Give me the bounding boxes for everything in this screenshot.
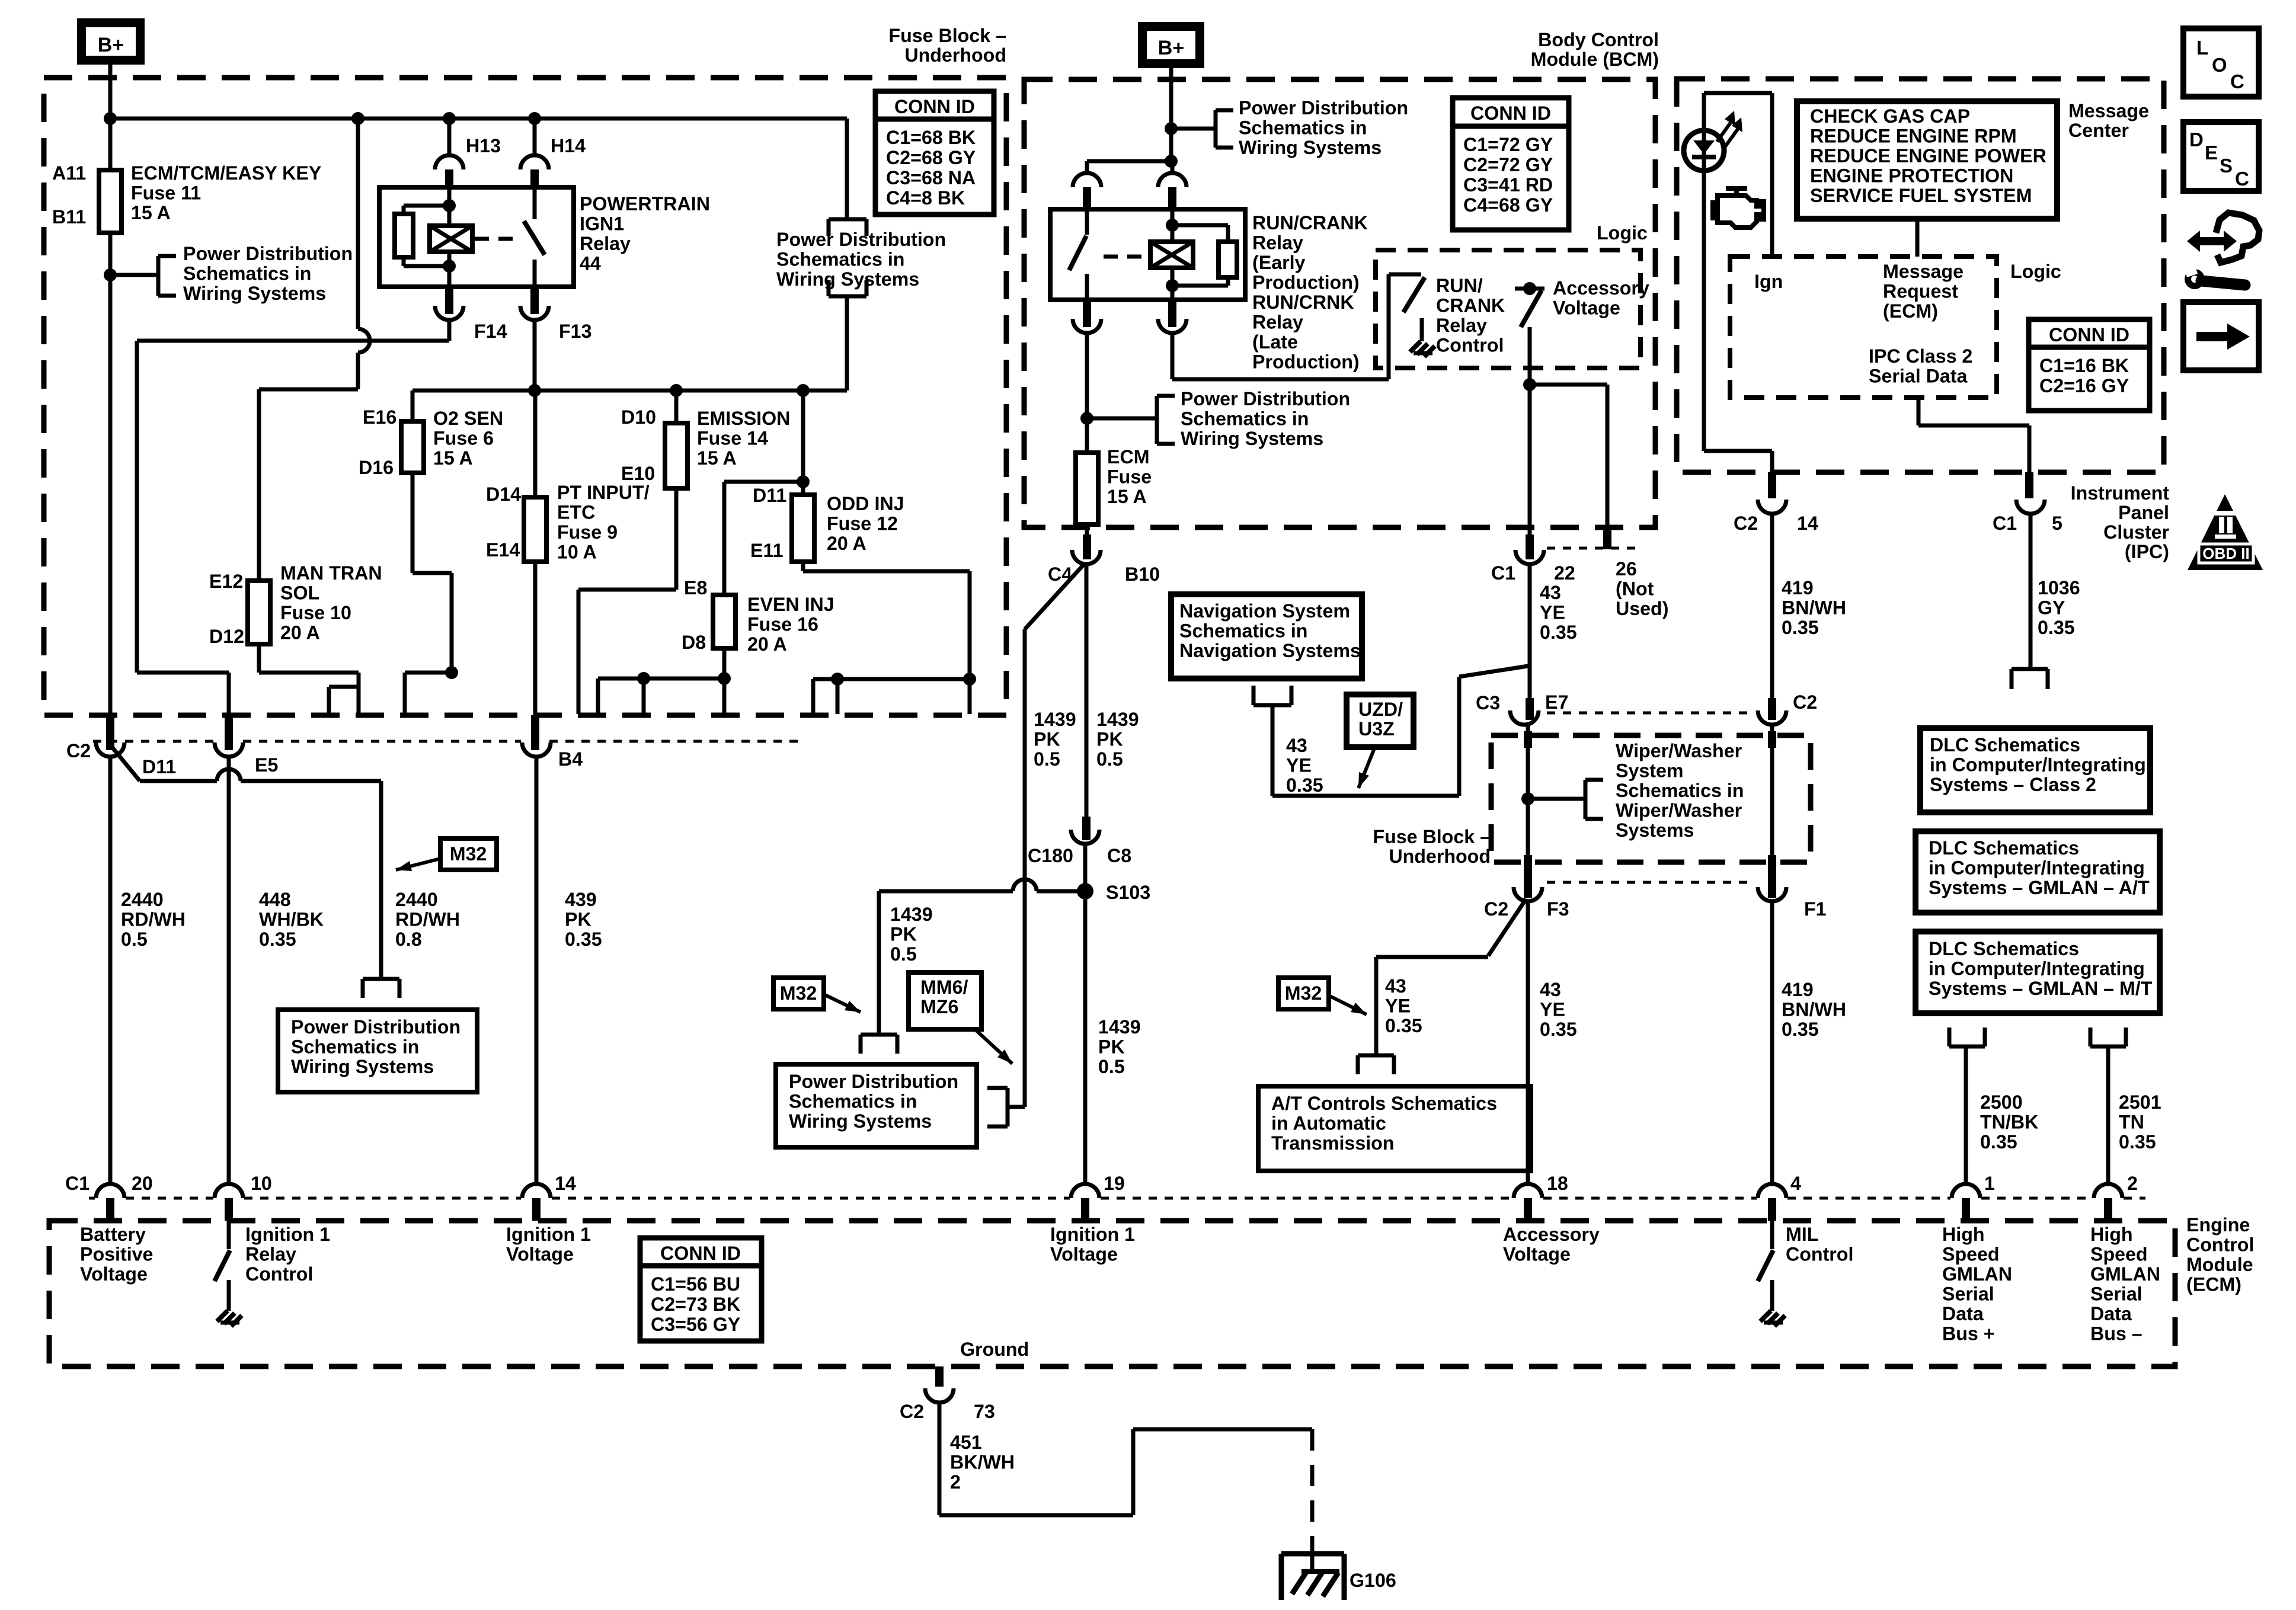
junction dot bus at H13 bbox=[443, 112, 456, 125]
svg-text:ETC: ETC bbox=[557, 502, 595, 523]
svg-text:M32: M32 bbox=[450, 843, 487, 865]
wire x604 upper bbox=[356, 119, 360, 329]
svg-text:Wiring Systems: Wiring Systems bbox=[1239, 137, 1382, 158]
connector ECM pin 19 arc bbox=[1071, 1184, 1099, 1198]
svg-text:1439: 1439 bbox=[890, 904, 933, 925]
wire x604 to MAN TRAN bbox=[259, 388, 358, 392]
junction dot O2 bottom bbox=[445, 666, 458, 679]
svg-text:Systems: Systems bbox=[1616, 820, 1694, 841]
wire relay out right down bbox=[1171, 333, 1175, 379]
svg-text:E12: E12 bbox=[209, 571, 243, 592]
svg-text:Wiring Systems: Wiring Systems bbox=[1181, 428, 1323, 449]
svg-text:43: 43 bbox=[1385, 975, 1406, 997]
svg-text:Relay: Relay bbox=[1252, 232, 1303, 254]
svg-text:DLC Schematics: DLC Schematics bbox=[1929, 837, 2079, 859]
bracket PD BCM mid bbox=[1155, 396, 1159, 444]
pin stub bracket MAN TRAN bbox=[329, 685, 359, 689]
fuse Fuse 16 EVEN INJ bbox=[713, 595, 736, 648]
svg-text:Schematics in: Schematics in bbox=[1181, 408, 1309, 430]
svg-text:IPC Class 2: IPC Class 2 bbox=[1869, 345, 1972, 367]
svg-text:0.35: 0.35 bbox=[1782, 617, 1819, 638]
svg-text:MAN TRAN: MAN TRAN bbox=[280, 562, 382, 584]
junction dot PD BCM mid bbox=[1080, 412, 1093, 425]
wire C2 wiper down bbox=[1770, 725, 1774, 858]
svg-text:ODD INJ: ODD INJ bbox=[827, 493, 904, 514]
svg-text:Fuse Block –: Fuse Block – bbox=[888, 25, 1006, 46]
fuse ECM Fuse 15A bbox=[1076, 453, 1098, 524]
connector ECM pin 1 arc bbox=[1952, 1184, 1980, 1198]
svg-text:Schematics in: Schematics in bbox=[1616, 780, 1744, 801]
wire accessory to C1 bbox=[1528, 385, 1532, 536]
connector C2/73 arc bbox=[925, 1388, 954, 1403]
connector row fine dash E7 bbox=[1547, 712, 1748, 715]
svg-text:5: 5 bbox=[2052, 513, 2062, 534]
relay switch wire upper bbox=[533, 187, 537, 219]
svg-text:REDUCE ENGINE POWER: REDUCE ENGINE POWER bbox=[1810, 145, 2046, 167]
callout box Power Distribution 4 bbox=[776, 1064, 977, 1147]
svg-text:Ignition 1: Ignition 1 bbox=[1050, 1224, 1135, 1245]
svg-text:0.35: 0.35 bbox=[1980, 1131, 2017, 1153]
relay dashed link bbox=[475, 237, 522, 241]
wire F1 to pin4 bbox=[1770, 901, 1774, 1185]
relay RUN/CRANK box bbox=[1050, 209, 1245, 300]
svg-text:Wiper/Washer: Wiper/Washer bbox=[1616, 740, 1742, 761]
svg-text:Accessory: Accessory bbox=[1503, 1224, 1600, 1245]
svg-text:Schematics in: Schematics in bbox=[291, 1036, 419, 1058]
wire 2500 TN/BK bbox=[1964, 1046, 1968, 1185]
svg-text:Fuse 16: Fuse 16 bbox=[747, 614, 818, 635]
svg-text:15 A: 15 A bbox=[697, 447, 737, 469]
relay2 switch blade bbox=[1069, 236, 1086, 270]
svg-text:CRANK: CRANK bbox=[1436, 295, 1505, 316]
svg-text:MZ6: MZ6 bbox=[920, 996, 958, 1017]
svg-text:Serial: Serial bbox=[2090, 1283, 2142, 1305]
svg-text:CHECK GAS CAP: CHECK GAS CAP bbox=[1810, 105, 1970, 127]
svg-text:419: 419 bbox=[1782, 979, 1814, 1000]
svg-text:C3=56 GY: C3=56 GY bbox=[651, 1314, 740, 1335]
svg-text:G106: G106 bbox=[1350, 1570, 1396, 1591]
svg-text:(ECM): (ECM) bbox=[2186, 1274, 2241, 1295]
svg-text:Schematics in: Schematics in bbox=[1239, 117, 1367, 139]
wire D11 horizontal with hop bbox=[140, 779, 217, 783]
wire fuse11 upper bbox=[108, 119, 113, 171]
svg-text:73: 73 bbox=[974, 1401, 995, 1422]
svg-text:PK: PK bbox=[1096, 729, 1123, 750]
relay2 coil X box bbox=[1150, 242, 1193, 268]
connector BCM relay in right bbox=[1158, 173, 1187, 187]
svg-text:CONN ID: CONN ID bbox=[660, 1243, 741, 1264]
wire H14 drop bbox=[533, 119, 537, 154]
junction dot ODD branch bbox=[797, 475, 810, 488]
svg-text:C1=16 BK: C1=16 BK bbox=[2039, 355, 2129, 376]
svg-text:E8: E8 bbox=[684, 577, 707, 598]
wire x604 lower bbox=[356, 353, 360, 389]
svg-text:Fuse Block –: Fuse Block – bbox=[1373, 826, 1491, 847]
svg-text:Systems – Class 2: Systems – Class 2 bbox=[1930, 774, 2096, 795]
svg-text:1439: 1439 bbox=[1098, 1016, 1141, 1038]
svg-text:Logic: Logic bbox=[1597, 222, 1648, 244]
power symbol B+ (BCM feed) bbox=[1138, 22, 1204, 68]
wire B10 down bbox=[1085, 564, 1089, 817]
svg-text:MIL: MIL bbox=[1786, 1224, 1818, 1245]
relay resistor parallel top bbox=[404, 204, 449, 208]
svg-text:Bus +: Bus + bbox=[1942, 1323, 1995, 1345]
svg-text:WH/BK: WH/BK bbox=[259, 909, 324, 930]
svg-text:in Automatic: in Automatic bbox=[1271, 1113, 1386, 1134]
ground G106 bbox=[1279, 1554, 1284, 1600]
wire F3 C2 diagonal bbox=[1488, 899, 1526, 956]
connector BCM relay out left bbox=[1083, 300, 1091, 327]
svg-text:Fuse 9: Fuse 9 bbox=[557, 521, 618, 543]
svg-text:BN/WH: BN/WH bbox=[1782, 597, 1846, 619]
svg-text:O2 SEN: O2 SEN bbox=[433, 408, 503, 429]
wire navigation right bbox=[1272, 794, 1459, 798]
callout box M32 third bbox=[1278, 978, 1329, 1009]
wire ODD to EVEN branch bbox=[724, 480, 803, 484]
svg-text:Schematics in: Schematics in bbox=[776, 249, 904, 270]
svg-text:Relay: Relay bbox=[1252, 312, 1303, 333]
svg-text:ECM/TCM/EASY KEY: ECM/TCM/EASY KEY bbox=[131, 162, 321, 184]
svg-text:PK: PK bbox=[1098, 1036, 1125, 1058]
svg-text:Fuse 14: Fuse 14 bbox=[697, 428, 768, 449]
arrow UZD/U3Z bbox=[1358, 748, 1374, 788]
conn id table BCM bbox=[1453, 98, 1569, 230]
arrow M32 first bbox=[396, 859, 440, 870]
connector ECM pin 10 arc bbox=[215, 1184, 243, 1198]
junction dot bus EMISSION bbox=[670, 384, 683, 397]
svg-text:YE: YE bbox=[1385, 996, 1411, 1017]
conn id table fuse block bbox=[875, 91, 994, 215]
connector C4/B10 arc bbox=[1072, 550, 1101, 564]
connector ECM pin 20 arc bbox=[96, 1184, 124, 1198]
accessory voltage contact bbox=[1515, 287, 1544, 291]
svg-text:PK: PK bbox=[890, 924, 917, 945]
svg-text:0.5: 0.5 bbox=[1034, 748, 1060, 770]
callout box M32 second bbox=[773, 978, 824, 1009]
svg-text:0.5: 0.5 bbox=[1098, 1056, 1125, 1077]
switch ignition 1 relay control bbox=[227, 1221, 231, 1249]
connector H14 arc bbox=[520, 155, 549, 169]
wire ODD lower loop bbox=[801, 562, 805, 571]
connector C1/22 arc bbox=[1515, 550, 1544, 564]
svg-text:E5: E5 bbox=[255, 754, 278, 776]
svg-text:Data: Data bbox=[2090, 1303, 2132, 1324]
wire EVEN bottom bus bbox=[598, 677, 724, 681]
svg-text:0.35: 0.35 bbox=[1286, 774, 1323, 796]
svg-text:Speed: Speed bbox=[2090, 1244, 2148, 1265]
relay resistor R bbox=[395, 214, 413, 257]
svg-text:C3=41 RD: C3=41 RD bbox=[1463, 174, 1553, 196]
svg-text:0.35: 0.35 bbox=[259, 929, 296, 950]
svg-text:TN/BK: TN/BK bbox=[1980, 1112, 2038, 1133]
svg-text:2501: 2501 bbox=[2119, 1092, 2161, 1113]
svg-text:Underhood: Underhood bbox=[904, 44, 1006, 66]
svg-text:E16: E16 bbox=[363, 406, 396, 428]
junction dot ODD loop bbox=[963, 673, 976, 686]
svg-text:F1: F1 bbox=[1804, 898, 1827, 920]
callout box A/T Controls bbox=[1258, 1086, 1531, 1171]
svg-text:C2: C2 bbox=[1484, 898, 1508, 920]
wire O2 lower bbox=[411, 473, 415, 573]
svg-text:RD/WH: RD/WH bbox=[121, 909, 186, 930]
junction dot bus at H14 bbox=[528, 112, 541, 125]
svg-text:B4: B4 bbox=[558, 748, 583, 770]
wire EMISSION feed bbox=[674, 391, 679, 424]
svg-text:D10: D10 bbox=[621, 406, 656, 428]
svg-text:L: L bbox=[2196, 37, 2208, 59]
wire accessory branch 26 bbox=[1530, 383, 1607, 387]
switch blade RUN/CRANK control bbox=[1403, 277, 1425, 312]
junction dot BCM PD bbox=[1165, 122, 1178, 135]
svg-text:Wiring Systems: Wiring Systems bbox=[183, 283, 326, 304]
junction dot bus at x604 bbox=[351, 112, 364, 125]
connector B4 arc bbox=[522, 742, 551, 757]
svg-text:D11: D11 bbox=[753, 485, 786, 506]
svg-text:Schematics in: Schematics in bbox=[183, 263, 311, 284]
wire EVEN lower bbox=[722, 648, 727, 678]
svg-text:CONN ID: CONN ID bbox=[894, 96, 975, 117]
svg-text:Body Control: Body Control bbox=[1538, 29, 1659, 50]
svg-text:MM6/: MM6/ bbox=[920, 977, 968, 998]
junction dot wiper bbox=[1521, 792, 1534, 805]
junction dot BCM relay jog bbox=[1165, 155, 1178, 168]
svg-text:0.35: 0.35 bbox=[2038, 617, 2075, 638]
connector row fine dash fuse block bbox=[93, 740, 215, 743]
wire leg 1413 bbox=[836, 679, 840, 714]
svg-text:Power Distribution: Power Distribution bbox=[789, 1071, 958, 1092]
logic dashed box BCM bbox=[1376, 250, 1641, 368]
svg-text:DLC Schematics: DLC Schematics bbox=[1929, 938, 2079, 959]
junction dot bus ODD bbox=[797, 384, 810, 397]
svg-text:OBD II: OBD II bbox=[2202, 545, 2249, 562]
svg-text:(Late: (Late bbox=[1252, 331, 1298, 353]
svg-text:D14: D14 bbox=[486, 484, 521, 505]
svg-text:D16: D16 bbox=[359, 457, 394, 478]
svg-text:BN/WH: BN/WH bbox=[1782, 999, 1846, 1020]
relay2 resistor R bbox=[1219, 242, 1237, 277]
wire 451 BK/WH bbox=[938, 1403, 942, 1515]
svg-text:0.35: 0.35 bbox=[1540, 1019, 1577, 1040]
svg-text:2440: 2440 bbox=[395, 889, 438, 910]
conn id table IPC bbox=[2029, 319, 2150, 411]
bracket wiper bbox=[1584, 780, 1588, 819]
svg-text:Battery: Battery bbox=[80, 1224, 146, 1245]
svg-text:EMISSION: EMISSION bbox=[697, 408, 790, 429]
wire to wiper bracket bbox=[1528, 797, 1585, 801]
svg-text:0.8: 0.8 bbox=[395, 929, 422, 950]
svg-text:High: High bbox=[2090, 1224, 2133, 1245]
svg-text:Underhood: Underhood bbox=[1389, 846, 1491, 867]
wire EMISSION lower bbox=[674, 488, 679, 590]
svg-text:M32: M32 bbox=[780, 982, 817, 1004]
svg-text:F14: F14 bbox=[474, 321, 507, 342]
svg-text:E11: E11 bbox=[750, 540, 784, 561]
wire B+ BCM stub bbox=[1169, 68, 1173, 129]
svg-text:IGN1: IGN1 bbox=[580, 213, 624, 235]
svg-text:Wiring Systems: Wiring Systems bbox=[291, 1056, 434, 1077]
svg-text:(IPC): (IPC) bbox=[2125, 541, 2169, 562]
svg-text:C1: C1 bbox=[1993, 513, 2017, 534]
connector C180/C8 arc bbox=[1071, 830, 1099, 844]
wire H13 drop bbox=[447, 119, 452, 154]
connector F14 arc bbox=[445, 287, 453, 314]
junction dot bus PT bbox=[528, 384, 541, 397]
svg-text:Systems – GMLAN – A/T: Systems – GMLAN – A/T bbox=[1929, 877, 2150, 898]
wire 419 BN/WH upper bbox=[1770, 514, 1774, 700]
svg-text:REDUCE ENGINE RPM: REDUCE ENGINE RPM bbox=[1810, 126, 2017, 147]
svg-text:Power Distribution: Power Distribution bbox=[291, 1016, 461, 1038]
svg-text:Fuse 10: Fuse 10 bbox=[280, 602, 351, 623]
wire S103 left with hop bbox=[879, 889, 1013, 894]
connector C3/E7 arc bbox=[1510, 710, 1539, 725]
svg-text:Voltage: Voltage bbox=[1050, 1244, 1118, 1265]
svg-text:B+: B+ bbox=[1158, 37, 1184, 59]
connector F1 arc bbox=[1758, 887, 1786, 901]
callout box DLC class2 bbox=[1920, 728, 2150, 812]
svg-text:1439: 1439 bbox=[1034, 709, 1076, 730]
arrow M32 third bbox=[1329, 996, 1367, 1014]
junction dot bottom 1413 bbox=[831, 673, 844, 686]
wire to PD bracket BCM mid bbox=[1087, 417, 1157, 421]
svg-text:Fuse: Fuse bbox=[1107, 466, 1152, 488]
wire to PD bracket 1439 bbox=[1008, 1105, 1025, 1109]
svg-text:C: C bbox=[2230, 71, 2244, 92]
svg-text:20 A: 20 A bbox=[827, 533, 866, 554]
svg-text:Control: Control bbox=[1436, 335, 1504, 356]
fuse Fuse 6 O2 SEN bbox=[401, 421, 424, 473]
svg-text:0.35: 0.35 bbox=[1782, 1019, 1819, 1040]
logic dashed box IPC bbox=[1730, 257, 1997, 398]
svg-text:Control: Control bbox=[245, 1263, 313, 1285]
svg-text:Ignition 1: Ignition 1 bbox=[506, 1224, 591, 1245]
power symbol B+ (fuse block feed) bbox=[77, 18, 145, 65]
svg-text:(ECM): (ECM) bbox=[1883, 300, 1938, 322]
svg-text:RUN/CRANK: RUN/CRANK bbox=[1252, 212, 1368, 233]
svg-text:Panel: Panel bbox=[2118, 502, 2169, 523]
svg-text:Wiper/Washer: Wiper/Washer bbox=[1616, 800, 1742, 821]
wire relay out left down bbox=[1085, 333, 1089, 454]
icon right arrow bbox=[2183, 302, 2259, 370]
svg-text:U3Z: U3Z bbox=[1358, 718, 1395, 740]
callout box CHECK GAS CAP bbox=[1797, 101, 2057, 219]
svg-text:Data: Data bbox=[1942, 1303, 1984, 1324]
svg-text:Positive: Positive bbox=[80, 1244, 153, 1265]
wire callout2 to bus bbox=[845, 296, 849, 391]
body control module dashed box bbox=[1024, 79, 1655, 527]
svg-text:4: 4 bbox=[1790, 1173, 1801, 1194]
wire MAN TRAN lower bbox=[257, 644, 261, 673]
wire bus right end to callout bbox=[845, 119, 849, 219]
junction dot relay coil bottom bbox=[443, 260, 456, 273]
connector BCM relay in left bbox=[1073, 173, 1101, 187]
fuse Fuse 12 ODD INJ bbox=[792, 495, 814, 562]
connector ECM pin 4 arc bbox=[1758, 1184, 1786, 1198]
svg-text:Ground: Ground bbox=[960, 1339, 1029, 1360]
svg-text:S: S bbox=[2220, 155, 2233, 177]
svg-text:Fuse 6: Fuse 6 bbox=[433, 428, 494, 449]
wire F13 down bbox=[533, 320, 537, 391]
svg-text:0.35: 0.35 bbox=[2119, 1131, 2156, 1153]
bracket PD callout 1 bbox=[156, 256, 161, 296]
svg-text:2440: 2440 bbox=[121, 889, 164, 910]
svg-text:Relay: Relay bbox=[1436, 315, 1487, 336]
svg-text:Power Distribution: Power Distribution bbox=[1239, 97, 1408, 119]
svg-text:C2: C2 bbox=[1793, 692, 1817, 713]
switch MIL control bbox=[1770, 1221, 1774, 1249]
connector C2/14 arc bbox=[1758, 500, 1786, 514]
relay resistor parallel bottom bbox=[402, 257, 406, 266]
wire to PD bracket 1 bbox=[110, 273, 158, 277]
wire 2440 RD/WH 0.5 bbox=[108, 757, 113, 1185]
icon wrench bbox=[2185, 269, 2205, 289]
wire x231 down bbox=[135, 341, 139, 673]
svg-text:Instrument: Instrument bbox=[2071, 482, 2170, 504]
wire ODD bottom bus bbox=[813, 677, 970, 681]
bracket callout2 bottom bbox=[829, 295, 866, 299]
relay2 coil wire bbox=[1171, 209, 1175, 242]
svg-text:E10: E10 bbox=[621, 463, 655, 484]
bracket callout2 top bbox=[829, 217, 866, 222]
svg-text:Relay: Relay bbox=[245, 1244, 296, 1265]
wire D11 diagonal bbox=[113, 748, 140, 781]
svg-text:RUN/CRNK: RUN/CRNK bbox=[1252, 292, 1354, 313]
svg-text:Ign: Ign bbox=[1754, 271, 1783, 292]
bracket PD BCM top bbox=[1214, 110, 1218, 148]
svg-text:ENGINE PROTECTION: ENGINE PROTECTION bbox=[1810, 165, 2013, 187]
relay2 switch wire upper bbox=[1085, 209, 1089, 235]
wire 448 WH/BK bbox=[227, 757, 231, 1185]
instrument panel cluster dashed box bbox=[1677, 79, 2164, 472]
wire 2440 RD/WH 0.8 bbox=[379, 781, 383, 979]
wire 439 PK bbox=[535, 757, 539, 1185]
conn id table ECM bbox=[640, 1238, 762, 1341]
wire accessory down bbox=[1528, 327, 1532, 385]
relay coil wire lower bbox=[447, 252, 452, 287]
wire F14 horizontal bbox=[137, 339, 449, 343]
svg-text:PK: PK bbox=[565, 909, 591, 930]
svg-text:2: 2 bbox=[950, 1471, 961, 1493]
wire logic riser bbox=[1387, 274, 1391, 379]
svg-text:EVEN INJ: EVEN INJ bbox=[747, 594, 834, 615]
svg-text:POWERTRAIN: POWERTRAIN bbox=[580, 193, 710, 215]
wire AT branch down bbox=[1374, 957, 1379, 1055]
svg-text:S103: S103 bbox=[1106, 882, 1150, 903]
connector C1/5 arc bbox=[2016, 500, 2045, 514]
svg-text:C2: C2 bbox=[900, 1401, 924, 1422]
connector ECM pin 18 arc bbox=[1514, 1184, 1542, 1198]
svg-text:Transmission: Transmission bbox=[1271, 1132, 1395, 1154]
callout box DLC GMLAN AT bbox=[1916, 831, 2160, 913]
accessory voltage blade bbox=[1521, 290, 1542, 327]
connector C2 wiper arc bbox=[1758, 710, 1786, 725]
arrow MM6/MZ6 bbox=[975, 1029, 1012, 1064]
svg-text:18: 18 bbox=[1547, 1173, 1568, 1194]
svg-text:C3: C3 bbox=[1476, 692, 1500, 713]
svg-text:Power Distribution: Power Distribution bbox=[776, 229, 946, 250]
svg-text:PT INPUT/: PT INPUT/ bbox=[557, 482, 650, 503]
svg-text:Module (BCM): Module (BCM) bbox=[1531, 49, 1659, 70]
svg-text:B+: B+ bbox=[98, 34, 124, 56]
svg-text:Fuse 12: Fuse 12 bbox=[827, 513, 898, 534]
wire F3 C2 horizontal bbox=[1376, 955, 1488, 959]
callout box Navigation bbox=[1171, 594, 1362, 678]
svg-text:22: 22 bbox=[1554, 562, 1575, 584]
svg-text:0.35: 0.35 bbox=[565, 929, 602, 950]
svg-text:14: 14 bbox=[1797, 513, 1818, 534]
wiper washer dashed box bbox=[1491, 735, 1811, 862]
svg-text:Wiring Systems: Wiring Systems bbox=[776, 268, 919, 290]
wire C8 to S103 bbox=[1083, 844, 1088, 891]
